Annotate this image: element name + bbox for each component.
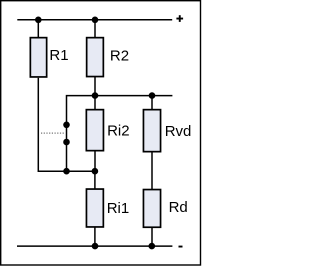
node top wire / R1 xyxy=(35,17,42,24)
node middle wire / R2 / Ri2 xyxy=(92,92,99,99)
svg-text:Ri2: Ri2 xyxy=(107,123,130,140)
wire R2 bottom lead xyxy=(94,77,96,96)
node lower wire / elbow xyxy=(63,168,70,175)
node tap upper on elbow wire xyxy=(63,122,70,129)
wire Ri2 bottom lead xyxy=(94,152,96,172)
border frame xyxy=(1,1,201,265)
node lower wire / Ri2 / Ri1 xyxy=(92,168,99,175)
wire top +rail xyxy=(17,19,172,21)
wire bottom -rail xyxy=(17,245,172,247)
resistor Rvd xyxy=(143,110,191,152)
resistor R2 xyxy=(87,38,129,77)
node middle wire / Rvd xyxy=(149,92,156,99)
resistor Ri2 xyxy=(86,110,129,151)
wire Rd bottom lead xyxy=(151,228,153,247)
wire Rvd to Rd connector xyxy=(151,153,153,190)
wire Ri2 top lead xyxy=(94,96,96,110)
wire R2 top lead xyxy=(94,20,96,38)
resistor Rd xyxy=(143,190,187,228)
wire middle rail with left elbow down xyxy=(67,96,173,172)
svg-text:Rvd: Rvd xyxy=(165,123,192,140)
wire R1 bottom lead with elbow to lower node wire xyxy=(38,78,95,171)
svg-text:R1: R1 xyxy=(49,47,68,64)
resistor Ri1 xyxy=(86,189,129,227)
wire Rvd top lead xyxy=(151,96,153,110)
label + xyxy=(176,15,183,22)
dotted tap line xyxy=(41,132,65,134)
node bottom wire / Ri1 xyxy=(92,243,99,250)
resistor R1 xyxy=(30,38,68,77)
node tap lower on elbow wire xyxy=(63,139,70,146)
wire Ri1 top lead xyxy=(94,171,96,189)
node top wire / R2 xyxy=(92,17,99,24)
wire R1 top lead xyxy=(37,20,39,38)
svg-text:R2: R2 xyxy=(110,47,129,64)
wire Ri1 bottom lead xyxy=(94,227,96,246)
label - xyxy=(179,246,183,248)
node bottom wire / Rd xyxy=(149,243,156,250)
svg-text:Rd: Rd xyxy=(169,199,188,216)
svg-text:Ri1: Ri1 xyxy=(107,200,130,217)
